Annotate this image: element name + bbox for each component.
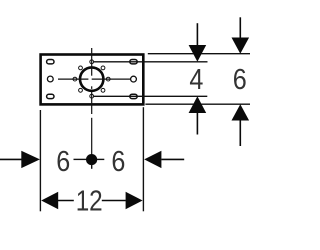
dim 4 arrow down tail bbox=[196, 23, 198, 45]
bolt circle 10:30 bbox=[79, 66, 83, 70]
bolt circle 7:30 bbox=[79, 88, 83, 92]
dim 6+6 left stub bbox=[74, 158, 87, 160]
centerline horizontal left bbox=[58, 78, 88, 80]
hole left bbox=[47, 76, 53, 82]
centerline vertical upper bbox=[91, 48, 93, 76]
plate outline bbox=[41, 55, 144, 105]
extension line plate right down bbox=[142, 107, 144, 211]
bolt circle 1:30 bbox=[101, 66, 105, 70]
centerline horizontal right bbox=[92, 78, 131, 80]
centerline vertical dash bbox=[91, 86, 93, 89]
dim 6 right arrow down head bbox=[232, 38, 250, 54]
extension line bottom slot center bbox=[94, 95, 208, 97]
slot top-left bbox=[47, 60, 54, 64]
svg-text:6: 6 bbox=[233, 64, 247, 96]
centerline vertical lower bbox=[91, 92, 93, 115]
bolt circle 9 o'clock bbox=[73, 77, 77, 81]
svg-text:4: 4 bbox=[189, 64, 203, 96]
dim 6+6 right arrow head bbox=[144, 151, 161, 168]
bolt circle 3 o'clock bbox=[106, 77, 110, 81]
extension line plate bottom bbox=[145, 103, 250, 105]
dim 6+6 left arrow tail bbox=[0, 158, 22, 160]
dim 4 arrow down head bbox=[189, 45, 207, 62]
svg-text:12: 12 bbox=[76, 185, 103, 217]
dim 6+6 right arrow tail bbox=[161, 158, 184, 160]
dim 6 right arrow up tail bbox=[239, 120, 241, 146]
dim 4 arrow up tail bbox=[196, 113, 198, 135]
bolt circle 12 o'clock bbox=[90, 60, 94, 64]
dim 6+6 left arrow head bbox=[21, 151, 40, 168]
dim 12 right arrow head bbox=[126, 192, 143, 209]
dim 6+6 right stub bbox=[97, 158, 105, 160]
dim 12 left arrow head bbox=[41, 192, 58, 209]
dim 6 right arrow down tail bbox=[239, 17, 241, 38]
big circle bbox=[80, 67, 103, 90]
dim 4 arrow up head bbox=[189, 96, 207, 113]
centerline stub below dot bbox=[91, 165, 93, 169]
svg-text:6: 6 bbox=[56, 146, 70, 178]
dim 12 right line bbox=[102, 200, 126, 202]
slot top-right bbox=[130, 60, 137, 64]
dim 12 left line bbox=[58, 200, 74, 202]
dim 6 right arrow up head bbox=[232, 104, 250, 120]
dim 6+6 center dot bbox=[86, 154, 97, 165]
extension line plate left down bbox=[39, 110, 41, 211]
slot bottom-left bbox=[47, 94, 54, 98]
extension line top slot center bbox=[94, 61, 208, 63]
centerline vertical to dot bbox=[91, 118, 93, 160]
svg-text:6: 6 bbox=[111, 146, 125, 178]
bolt circle 4:30 bbox=[101, 88, 105, 92]
hole right bbox=[131, 76, 137, 82]
bolt circle 6 o'clock bbox=[90, 94, 94, 98]
slot bottom-right bbox=[130, 94, 137, 98]
extension line plate top bbox=[148, 53, 250, 55]
